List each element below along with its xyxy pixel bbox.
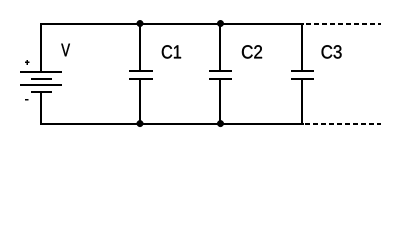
minus polarity mark xyxy=(25,99,29,101)
plus polarity mark xyxy=(25,60,30,65)
label C3 xyxy=(322,45,342,58)
node junction dot C2 top xyxy=(217,20,224,27)
wire left vertical bottom (source to bottom bus) xyxy=(40,92,42,125)
capacitor C2 xyxy=(209,23,232,124)
node junction dot C1 bottom xyxy=(137,120,144,127)
wire top bus solid xyxy=(40,23,304,25)
node junction dot C1 top xyxy=(137,20,144,27)
capacitor C3 xyxy=(291,23,314,124)
label C2 xyxy=(242,45,262,58)
label C1 xyxy=(162,45,181,58)
wire bottom bus solid xyxy=(40,123,304,125)
node junction dot C2 bottom xyxy=(217,120,224,127)
capacitor C1 xyxy=(129,23,153,124)
battery V (voltage source) xyxy=(20,72,62,92)
wire left vertical top (source to top bus) xyxy=(40,23,42,72)
wire bottom bus dotted continuation xyxy=(305,123,381,125)
label V xyxy=(61,44,70,57)
wire top bus dotted continuation xyxy=(306,23,381,25)
